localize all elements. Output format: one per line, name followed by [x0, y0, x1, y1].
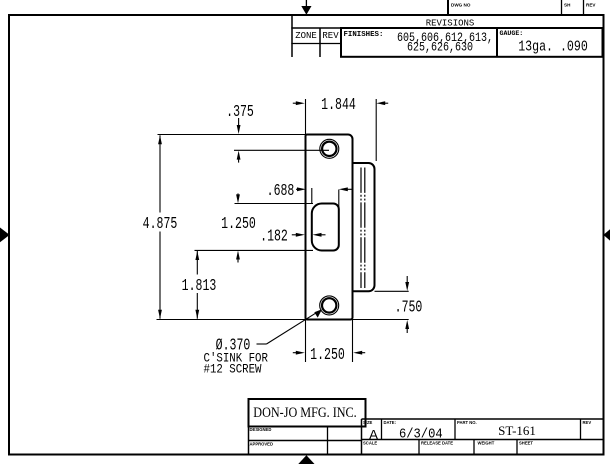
note dia .370 csink: [204, 337, 268, 377]
svg-text:DWG NO: DWG NO: [451, 3, 471, 8]
svg-text:ZONE: ZONE: [295, 31, 317, 41]
dimension .375: [226, 103, 254, 162]
plate body outline: [306, 135, 353, 320]
svg-text:DATE:: DATE:: [384, 420, 396, 425]
svg-text:1.844: 1.844: [321, 96, 356, 115]
svg-text:13ga. .090: 13ga. .090: [518, 39, 588, 56]
svg-text:4.875: 4.875: [143, 215, 178, 234]
lip bend phantom line 2: [364, 168, 366, 289]
svg-text:A: A: [369, 426, 379, 442]
latch opening: [312, 204, 339, 251]
dimension 4.875: [143, 135, 178, 318]
top screw hole: [320, 139, 339, 158]
ext line lip bottom right: [375, 290, 409, 292]
svg-text:.750: .750: [395, 299, 423, 318]
svg-text:DESIGNED: DESIGNED: [250, 427, 272, 432]
dimension .688: [267, 182, 353, 201]
svg-text:PART NO.: PART NO.: [457, 420, 477, 425]
svg-text:1.813: 1.813: [182, 277, 217, 296]
svg-text:1.250: 1.250: [310, 346, 345, 365]
bottom screw hole: [320, 296, 339, 315]
ext line latch bottom: [195, 249, 314, 251]
title block right grid: [362, 419, 604, 454]
dimension .182: [260, 228, 325, 247]
svg-text:625,626,630: 625,626,630: [407, 41, 473, 56]
svg-text:DON-JO MFG. INC.: DON-JO MFG. INC.: [253, 404, 356, 420]
svg-text:.375: .375: [226, 103, 254, 122]
svg-text:APPROVED: APPROVED: [250, 442, 274, 447]
svg-text:FINISHES:: FINISHES:: [344, 31, 384, 39]
ext line lip right above: [375, 99, 377, 161]
dimension 1.813: [182, 251, 217, 319]
svg-text:.182: .182: [260, 228, 288, 247]
revisions table frame: [291, 15, 603, 57]
leader line to bottom hole: [257, 309, 323, 344]
ext line latch top: [235, 203, 314, 205]
title block left rows: [248, 427, 362, 455]
svg-text:WEIGHT: WEIGHT: [478, 441, 495, 446]
plate lip outline: [353, 163, 375, 291]
svg-text:#12 SCREW: #12 SCREW: [204, 363, 262, 377]
centering mark left: [0, 228, 10, 243]
ext line latch right upper: [338, 190, 340, 208]
top title strip (cut off): [448, 0, 596, 15]
ext line below plate left: [305, 320, 307, 363]
svg-text:GAUGE:: GAUGE:: [500, 30, 524, 37]
ext line below plate step: [352, 320, 354, 363]
dimension 1.844: [293, 96, 388, 115]
ext line top hole center: [234, 149, 329, 151]
svg-text:1.250: 1.250: [221, 215, 256, 234]
ext line plate top left: [158, 134, 306, 136]
svg-text:REV: REV: [586, 3, 596, 8]
centering mark right: [603, 229, 610, 240]
ext line latch left upper: [311, 188, 313, 204]
svg-text:SIZE: SIZE: [363, 420, 373, 425]
centering mark bottom: [298, 455, 314, 464]
svg-text:.688: .688: [267, 182, 295, 201]
title block company box: [249, 399, 366, 427]
svg-text:REV: REV: [583, 420, 592, 425]
lip bend phantom line 1: [360, 168, 362, 289]
dimension 1.250 (bottom): [293, 346, 365, 365]
svg-text:SHEET: SHEET: [519, 441, 533, 446]
svg-text:ST-161: ST-161: [498, 423, 536, 438]
dimension 1.250 (latch opening): [221, 193, 256, 262]
ext line plate bottom left: [157, 319, 306, 321]
centering mark top: [301, 0, 311, 15]
svg-text:REV: REV: [322, 31, 339, 41]
dimension .750: [395, 276, 423, 333]
svg-text:SH: SH: [564, 3, 571, 8]
finishes/gauge box: [341, 28, 603, 57]
ext line plate bottom right: [353, 319, 409, 321]
svg-text:6/3/04: 6/3/04: [399, 426, 443, 442]
ext line plate left above: [305, 99, 307, 135]
